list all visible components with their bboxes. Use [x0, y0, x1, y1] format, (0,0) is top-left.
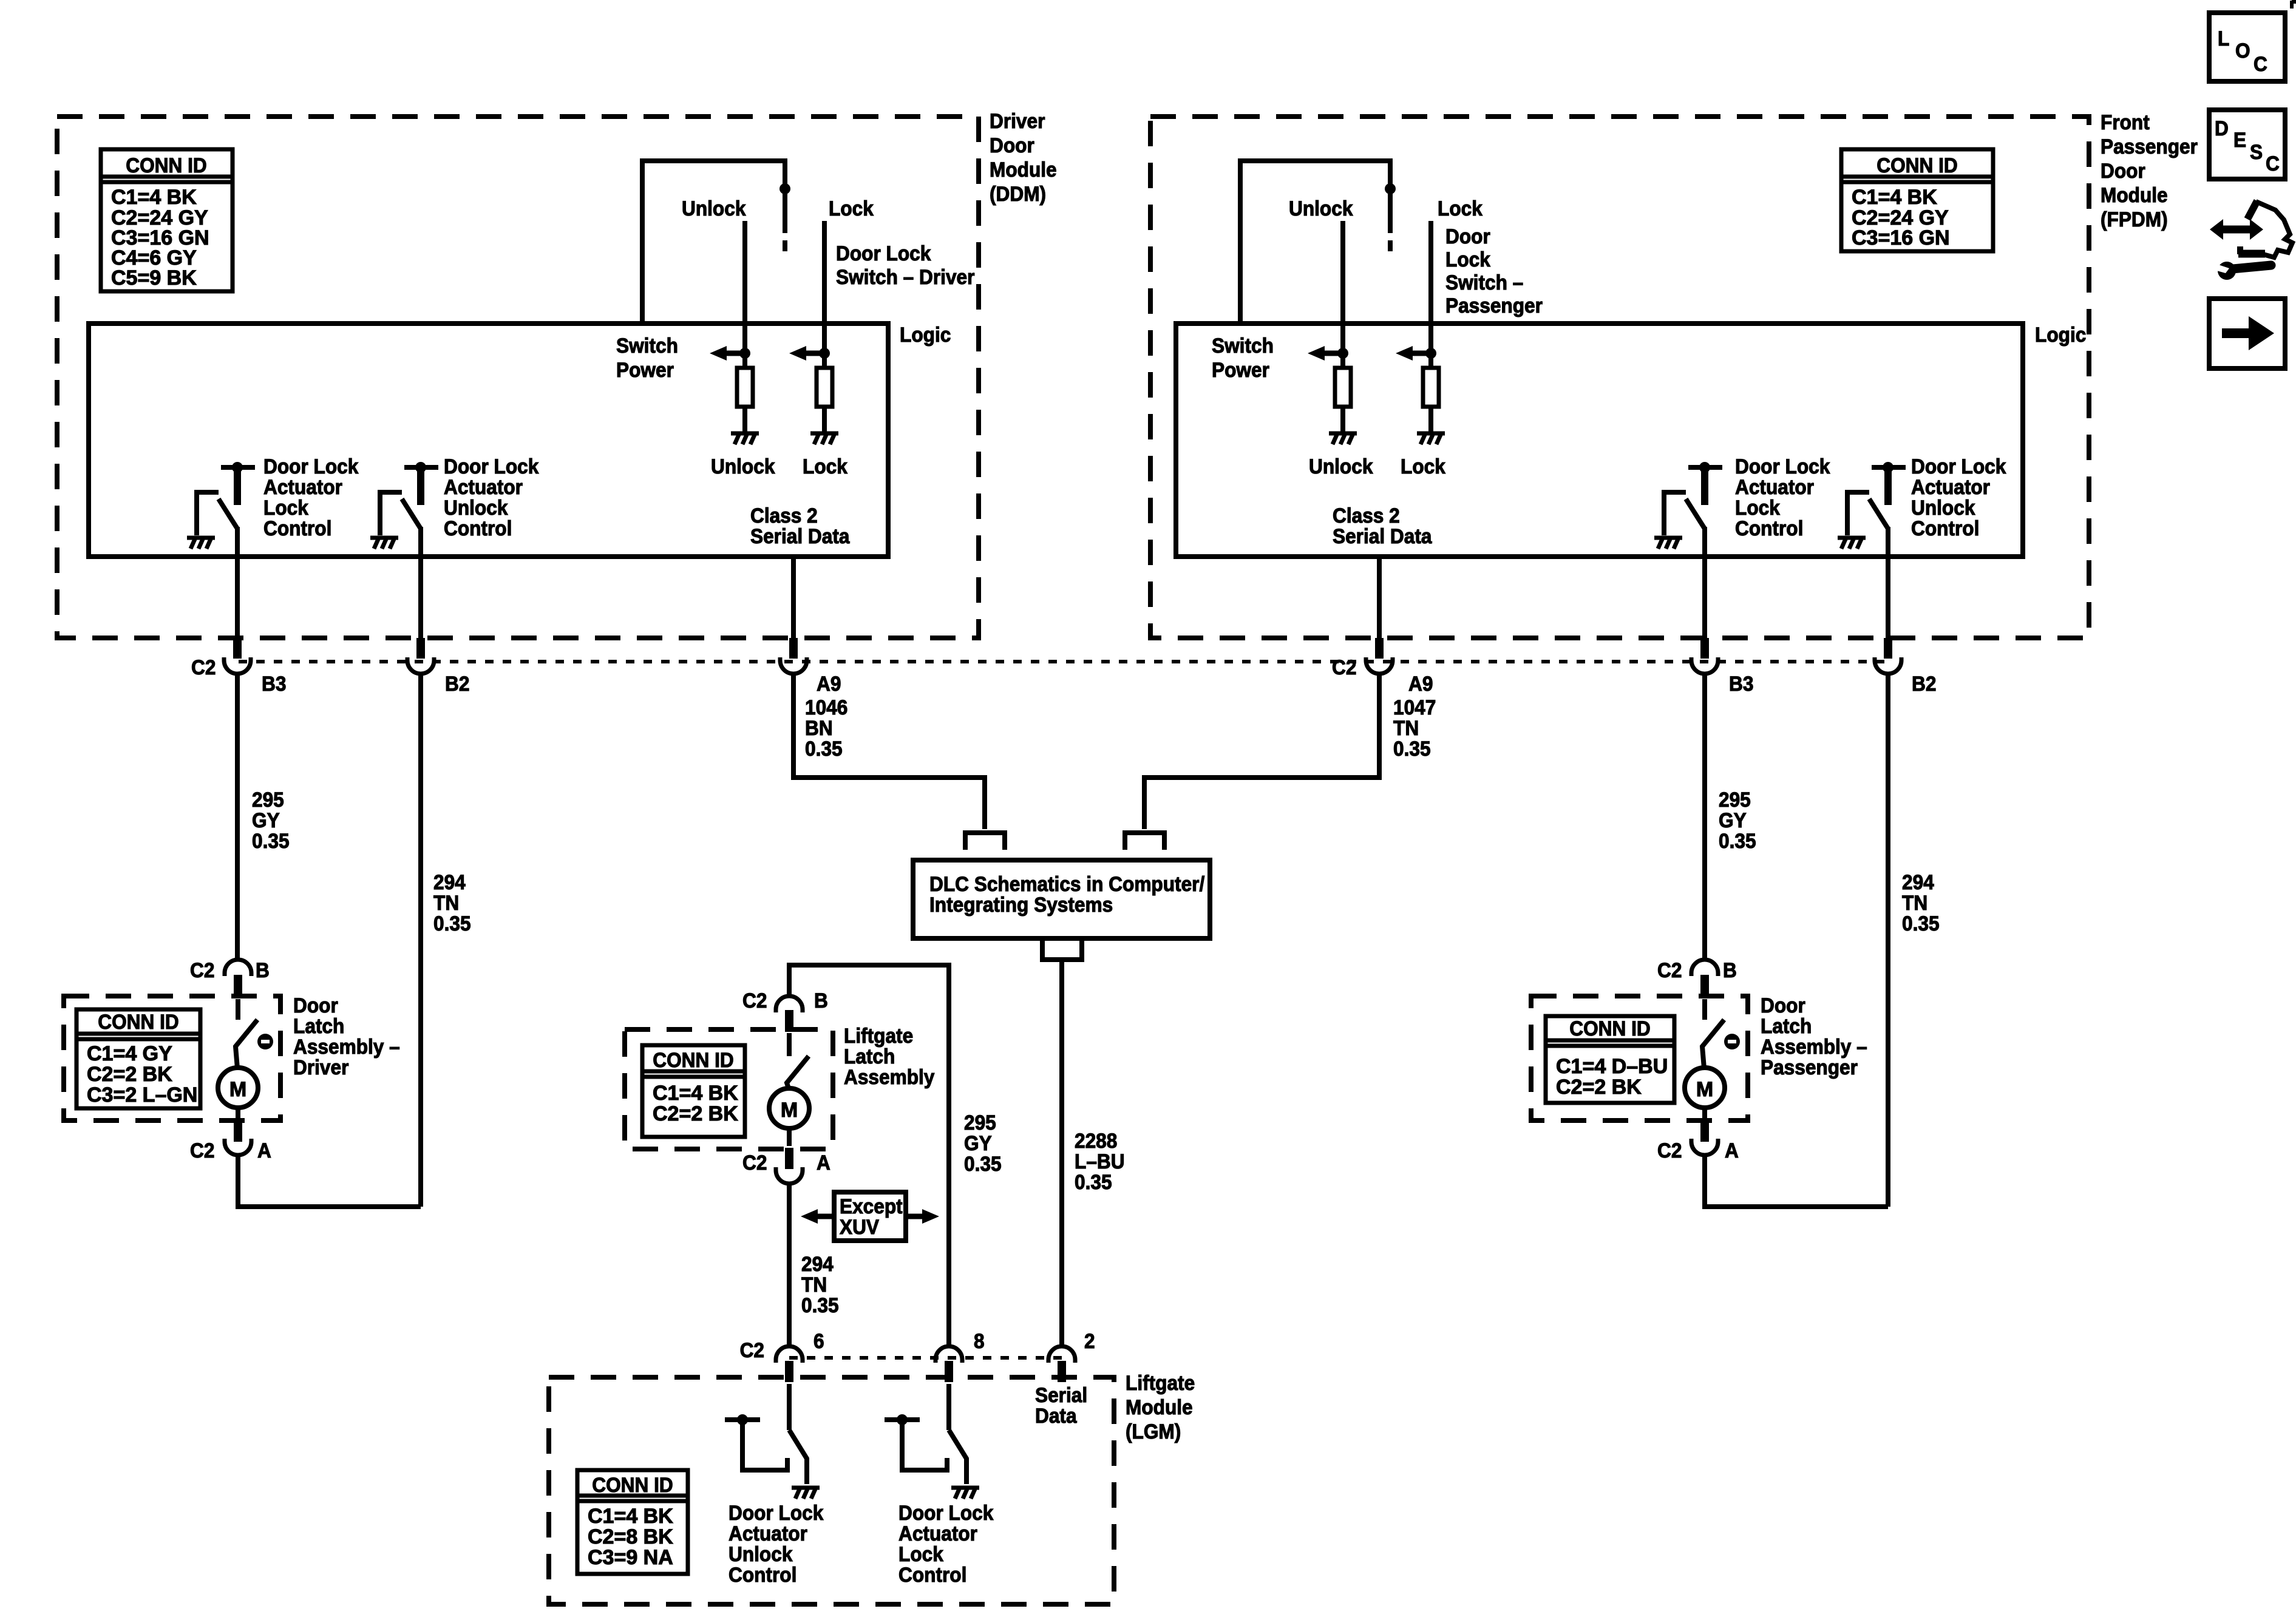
svg-text:Actuator: Actuator — [444, 475, 523, 498]
svg-text:Lock: Lock — [1735, 496, 1781, 519]
svg-text:A: A — [257, 1139, 271, 1162]
svg-text:Logic: Logic — [2035, 323, 2086, 346]
svg-text:C3=16 GN: C3=16 GN — [1852, 226, 1950, 249]
svg-text:B: B — [1723, 958, 1737, 981]
svg-text:0.35: 0.35 — [805, 737, 843, 760]
svg-text:C2: C2 — [1657, 958, 1682, 981]
svg-text:C2: C2 — [190, 958, 214, 981]
svg-text:Data: Data — [1035, 1404, 1077, 1427]
svg-text:Lock: Lock — [1438, 197, 1483, 220]
svg-text:Liftgate: Liftgate — [1126, 1371, 1195, 1394]
svg-text:L: L — [2218, 27, 2229, 50]
svg-text:GY: GY — [1719, 808, 1747, 832]
svg-text:Unlock: Unlock — [444, 496, 508, 519]
svg-text:Assembly: Assembly — [844, 1065, 935, 1088]
svg-text:Unlock: Unlock — [1289, 197, 1353, 220]
svg-text:Latch: Latch — [844, 1045, 895, 1068]
svg-text:D: D — [2215, 117, 2229, 140]
svg-text:Module: Module — [1126, 1395, 1193, 1419]
svg-text:(LGM): (LGM) — [1126, 1420, 1181, 1443]
svg-text:Lock: Lock — [803, 455, 848, 478]
svg-text:Control: Control — [1911, 517, 1979, 540]
svg-text:Integrating Systems: Integrating Systems — [929, 893, 1113, 916]
svg-text:TN: TN — [1393, 716, 1419, 739]
svg-text:Control: Control — [263, 517, 331, 540]
svg-text:A: A — [1725, 1139, 1739, 1162]
svg-text:Door Lock: Door Lock — [1735, 455, 1830, 478]
svg-text:C1=4 BK: C1=4 BK — [111, 186, 197, 209]
svg-text:O: O — [2235, 39, 2250, 62]
svg-text:C1=4 BK: C1=4 BK — [653, 1082, 738, 1105]
svg-text:Module: Module — [990, 158, 1057, 181]
svg-text:0.35: 0.35 — [433, 912, 471, 935]
svg-text:Serial Data: Serial Data — [1333, 524, 1432, 547]
svg-text:Module: Module — [2101, 183, 2168, 206]
svg-text:C2: C2 — [740, 1338, 764, 1361]
svg-text:1046: 1046 — [805, 696, 847, 719]
svg-text:Passenger: Passenger — [1445, 294, 1543, 317]
svg-text:Latch: Latch — [1761, 1014, 1812, 1037]
svg-text:Power: Power — [1212, 358, 1269, 381]
svg-text:DLC Schematics in Computer/: DLC Schematics in Computer/ — [929, 872, 1204, 895]
svg-text:B2: B2 — [1912, 672, 1936, 695]
svg-text:TN: TN — [801, 1273, 827, 1296]
svg-text:Switch: Switch — [616, 334, 678, 357]
svg-text:Switch – Driver: Switch – Driver — [836, 265, 975, 288]
svg-text:Door Lock: Door Lock — [836, 242, 931, 265]
svg-text:295: 295 — [252, 788, 284, 811]
svg-text:Actuator: Actuator — [1911, 475, 1990, 498]
svg-text:Door Lock: Door Lock — [1911, 455, 2006, 478]
svg-text:TN: TN — [433, 891, 459, 914]
svg-text:Lock: Lock — [898, 1542, 944, 1565]
svg-text:0.35: 0.35 — [1902, 912, 1940, 935]
svg-text:Unlock: Unlock — [1309, 455, 1373, 478]
svg-text:CONN ID: CONN ID — [126, 154, 206, 177]
svg-text:C1=4 GY: C1=4 GY — [87, 1042, 172, 1065]
svg-text:Control: Control — [444, 517, 512, 540]
svg-text:(DDM): (DDM) — [990, 182, 1046, 205]
svg-text:C1=4 D–BU: C1=4 D–BU — [1556, 1055, 1668, 1078]
svg-text:Door: Door — [2101, 159, 2145, 182]
svg-text:B: B — [814, 989, 828, 1012]
svg-text:C3=9 NA: C3=9 NA — [588, 1546, 673, 1569]
svg-text:CONN ID: CONN ID — [98, 1010, 178, 1033]
svg-text:0.35: 0.35 — [964, 1152, 1002, 1175]
svg-text:C2=2 BK: C2=2 BK — [1556, 1076, 1642, 1099]
svg-text:0.35: 0.35 — [252, 829, 290, 852]
svg-text:Serial Data: Serial Data — [750, 524, 850, 547]
svg-text:C: C — [2254, 52, 2267, 75]
svg-text:XUV: XUV — [840, 1215, 879, 1238]
svg-text:295: 295 — [1719, 788, 1751, 811]
svg-text:Door: Door — [990, 134, 1034, 157]
svg-text:CONN ID: CONN ID — [1569, 1017, 1650, 1040]
svg-text:C2=2 BK: C2=2 BK — [653, 1102, 738, 1125]
svg-text:A9: A9 — [817, 672, 841, 695]
svg-text:Passenger: Passenger — [2101, 135, 2198, 158]
svg-text:Serial: Serial — [1035, 1383, 1087, 1406]
svg-text:Front: Front — [2101, 110, 2150, 134]
svg-text:Lock: Lock — [1445, 248, 1491, 271]
svg-text:Door: Door — [293, 994, 338, 1017]
svg-text:Actuator: Actuator — [263, 475, 342, 498]
svg-text:Passenger: Passenger — [1761, 1056, 1858, 1079]
svg-text:CONN ID: CONN ID — [1877, 154, 1957, 177]
svg-text:Lock: Lock — [829, 197, 874, 220]
svg-text:0.35: 0.35 — [1075, 1170, 1112, 1193]
svg-text:Except: Except — [840, 1195, 903, 1218]
svg-text:E: E — [2233, 128, 2246, 151]
svg-text:Latch: Latch — [293, 1014, 344, 1037]
svg-text:TN: TN — [1902, 891, 1927, 914]
svg-text:Actuator: Actuator — [898, 1522, 977, 1545]
svg-text:C2=2 BK: C2=2 BK — [87, 1063, 172, 1086]
svg-text:CONN ID: CONN ID — [653, 1048, 733, 1071]
svg-text:Door Lock: Door Lock — [444, 455, 539, 478]
svg-text:BN: BN — [805, 716, 833, 739]
svg-text:A: A — [817, 1151, 830, 1174]
svg-text:Door: Door — [1761, 994, 1805, 1017]
svg-text:B: B — [256, 958, 270, 981]
svg-text:Door: Door — [1445, 225, 1490, 248]
svg-text:295: 295 — [964, 1111, 996, 1134]
svg-text:1047: 1047 — [1393, 696, 1436, 719]
svg-text:Door Lock: Door Lock — [729, 1501, 824, 1524]
svg-text:Door Lock: Door Lock — [898, 1501, 994, 1524]
svg-text:Unlock: Unlock — [682, 197, 746, 220]
svg-text:C: C — [2266, 152, 2280, 175]
svg-text:C2: C2 — [191, 656, 216, 679]
svg-text:2288: 2288 — [1075, 1129, 1117, 1152]
svg-text:Door Lock: Door Lock — [263, 455, 359, 478]
svg-text:GY: GY — [964, 1131, 992, 1154]
svg-text:8: 8 — [974, 1329, 985, 1352]
svg-text:0.35: 0.35 — [801, 1293, 839, 1317]
svg-text:Liftgate: Liftgate — [844, 1024, 913, 1047]
svg-text:Class 2: Class 2 — [750, 504, 818, 527]
svg-text:Lock: Lock — [263, 496, 309, 519]
svg-text:Lock: Lock — [1401, 455, 1446, 478]
svg-text:C3=2 L–GN: C3=2 L–GN — [87, 1083, 197, 1107]
svg-text:C1=4 BK: C1=4 BK — [588, 1505, 673, 1528]
svg-text:Switch –: Switch – — [1445, 271, 1523, 294]
svg-text:C2: C2 — [1332, 656, 1356, 679]
svg-text:Driver: Driver — [990, 109, 1045, 132]
svg-text:Unlock: Unlock — [1911, 496, 1975, 519]
svg-text:A9: A9 — [1408, 672, 1433, 695]
svg-text:Control: Control — [1735, 517, 1803, 540]
svg-text:GY: GY — [252, 808, 280, 832]
svg-text:0.35: 0.35 — [1393, 737, 1431, 760]
svg-text:6: 6 — [813, 1329, 824, 1352]
svg-text:C2: C2 — [190, 1139, 214, 1162]
svg-text:Power: Power — [616, 358, 674, 381]
svg-text:B2: B2 — [445, 672, 469, 695]
svg-text:294: 294 — [433, 870, 466, 893]
svg-text:C2: C2 — [1657, 1139, 1682, 1162]
svg-text:Control: Control — [898, 1563, 966, 1586]
svg-text:(FPDM): (FPDM) — [2101, 208, 2168, 231]
svg-text:Logic: Logic — [900, 323, 951, 346]
svg-text:C2=8 BK: C2=8 BK — [588, 1525, 673, 1548]
svg-text:C2: C2 — [742, 1151, 767, 1174]
svg-text:Class 2: Class 2 — [1333, 504, 1400, 527]
svg-text:2: 2 — [1084, 1329, 1095, 1352]
svg-text:Unlock: Unlock — [711, 455, 775, 478]
svg-text:S: S — [2250, 140, 2263, 163]
svg-text:294: 294 — [801, 1252, 834, 1275]
svg-text:C1=4 BK: C1=4 BK — [1852, 186, 1937, 209]
svg-text:Assembly –: Assembly – — [1761, 1035, 1867, 1058]
svg-text:Driver: Driver — [293, 1056, 349, 1079]
svg-text:B3: B3 — [262, 672, 286, 695]
svg-text:B3: B3 — [1729, 672, 1753, 695]
svg-text:Assembly –: Assembly – — [293, 1035, 400, 1058]
svg-text:Switch: Switch — [1212, 334, 1274, 357]
svg-text:C2: C2 — [742, 989, 767, 1012]
svg-text:Actuator: Actuator — [729, 1522, 807, 1545]
svg-text:Actuator: Actuator — [1735, 475, 1814, 498]
svg-text:294: 294 — [1902, 870, 1934, 893]
svg-text:CONN ID: CONN ID — [592, 1473, 673, 1496]
svg-text:Control: Control — [729, 1563, 796, 1586]
svg-text:0.35: 0.35 — [1719, 829, 1756, 852]
svg-text:Unlock: Unlock — [729, 1542, 793, 1565]
svg-text:L–BU: L–BU — [1075, 1150, 1125, 1173]
svg-text:C5=9 BK: C5=9 BK — [111, 266, 197, 290]
